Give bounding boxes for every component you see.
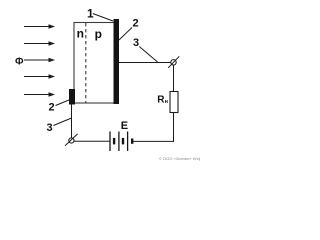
svg-text:Ф: Ф xyxy=(15,56,24,67)
svg-text:3: 3 xyxy=(47,122,53,134)
svg-text:E: E xyxy=(121,120,128,132)
battery E cell 3 plus plate xyxy=(127,132,129,152)
pointer line 2 bottom xyxy=(56,100,70,106)
light arrow 3 xyxy=(24,58,55,63)
wire bottom right to battery xyxy=(132,140,174,142)
wire resistor to bottom xyxy=(173,113,175,142)
svg-text:2: 2 xyxy=(133,18,139,30)
battery E cell 2 plus plate xyxy=(118,132,120,152)
svg-text:© ООО «Знанио» Инфоурок: © ООО «Знанио» Инфоурок xyxy=(159,156,200,161)
switch terminal top right (circle) xyxy=(171,60,176,65)
svg-text:н: н xyxy=(165,99,168,105)
switch slash bottom left xyxy=(65,134,78,146)
light arrow 2 xyxy=(24,41,55,46)
battery E cell 3 minus plate xyxy=(131,139,133,144)
svg-text:2: 2 xyxy=(49,102,55,114)
light arrow 5 xyxy=(24,92,55,97)
light arrow 1 xyxy=(24,24,55,29)
wire switch to resistor xyxy=(173,65,175,92)
p-n junction dashed line xyxy=(85,23,87,103)
battery E cell 1 plus plate xyxy=(109,132,111,152)
switch slash top right xyxy=(168,56,179,68)
pointer line 1 xyxy=(93,14,113,22)
pointer line 3 bottom xyxy=(54,118,72,126)
wire battery to bottom switch xyxy=(74,140,109,142)
battery E cell 1 minus plate xyxy=(113,138,115,145)
electrode bar right (2) xyxy=(114,19,120,104)
switch terminal bottom left (circle) xyxy=(69,138,74,143)
electrode bottom-left (2) xyxy=(69,89,75,105)
wire from right electrode to switch xyxy=(119,62,171,64)
resistor Rн body xyxy=(170,92,178,113)
light arrow 4 xyxy=(24,74,55,79)
pointer line 3 top xyxy=(139,47,157,63)
svg-text:p: p xyxy=(95,27,102,41)
photodiode body outline xyxy=(74,23,115,104)
svg-text:n: n xyxy=(77,27,84,41)
wire electrode to bottom switch xyxy=(71,105,73,138)
svg-text:3: 3 xyxy=(133,37,139,49)
battery E cell 2 minus plate xyxy=(122,138,124,145)
pointer line 2 top xyxy=(119,28,132,41)
